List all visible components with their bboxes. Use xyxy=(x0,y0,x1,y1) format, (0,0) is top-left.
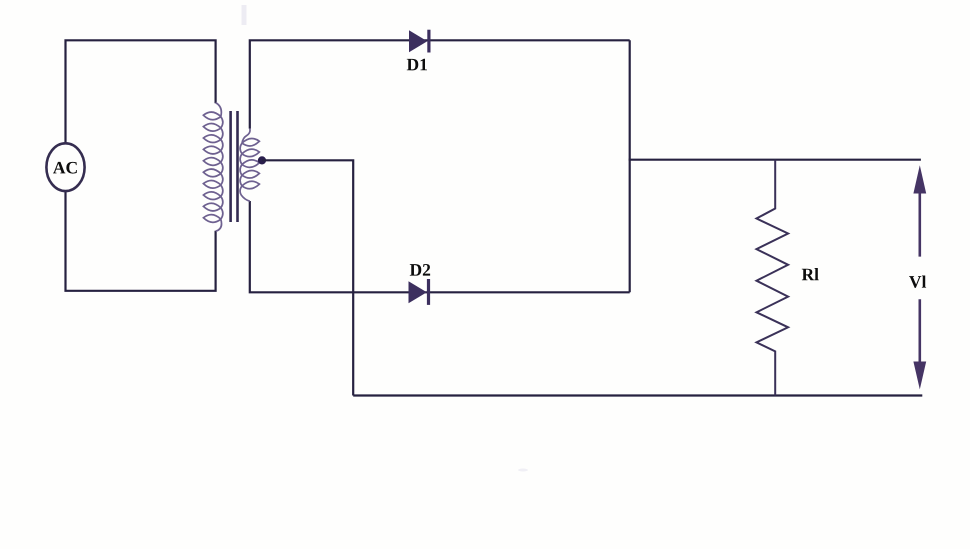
arrow Vl (output voltage) xyxy=(913,165,926,389)
wire: secondary top lead to D1 line xyxy=(250,40,630,128)
faint smudge mark xyxy=(518,469,528,472)
wire: cathode junction vertical (D1 to D2) xyxy=(629,40,631,292)
transformer core xyxy=(231,111,238,222)
label D1 xyxy=(407,59,427,71)
center tap node (dot) xyxy=(258,156,266,164)
wire: secondary bottom lead to D2 line xyxy=(250,201,630,292)
label Vl xyxy=(909,275,926,287)
resistor Rl xyxy=(757,160,789,396)
AC source xyxy=(46,143,84,191)
label Rl xyxy=(802,268,819,280)
faint artifact line top center xyxy=(242,5,247,25)
transformer primary coil L1 xyxy=(203,103,222,232)
diode D2 xyxy=(409,279,429,305)
wire: output top rail xyxy=(629,159,921,161)
transformer secondary coil L2 xyxy=(240,129,259,202)
wire: bottom rail xyxy=(353,394,922,396)
label D2 xyxy=(410,264,430,276)
diode D1 xyxy=(409,30,429,53)
wire: primary loop rectangle xyxy=(66,40,216,290)
wire: center tap to bottom rail xyxy=(262,160,353,395)
